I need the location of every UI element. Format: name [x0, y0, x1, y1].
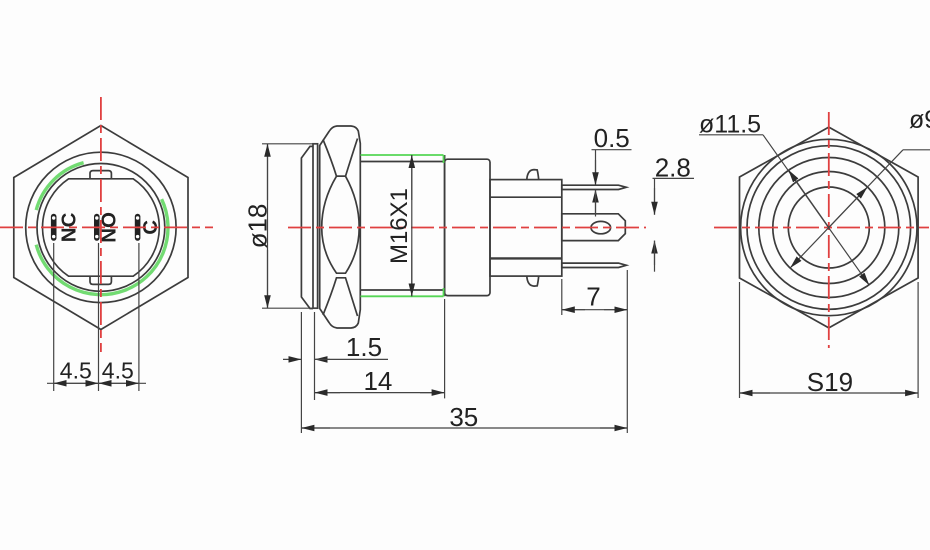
- svg-text:ø9: ø9: [909, 106, 930, 134]
- hex nut outline (front view): [14, 126, 188, 330]
- dimension 0.5: [592, 150, 632, 217]
- housing block: [490, 180, 562, 277]
- centerline horizontal (left view): [0, 226, 213, 228]
- svg-text:0.5: 0.5: [594, 123, 630, 153]
- nut middle facet lens: [322, 176, 360, 273]
- dimension 2.8: [653, 178, 695, 271]
- button circle: [788, 187, 869, 268]
- thread root lines: [361, 161, 444, 163]
- housing top snap tab: [527, 170, 539, 180]
- svg-text:ø11.5: ø11.5: [699, 110, 761, 138]
- terminal slot NO: [94, 214, 100, 241]
- terminal hole: [591, 221, 611, 233]
- button cap face: [301, 146, 313, 308]
- thread circle: [759, 158, 899, 298]
- svg-text:14: 14: [363, 366, 392, 396]
- housing seam top: [490, 196, 562, 198]
- flange inner circle: [747, 146, 911, 310]
- svg-text:2.8: 2.8: [655, 153, 691, 183]
- nut top facet curves: [323, 139, 358, 177]
- centerline vertical (left view): [100, 97, 102, 352]
- rear step ring: [445, 159, 490, 295]
- svg-text:35: 35: [449, 402, 478, 432]
- dimension Ø18: [262, 144, 317, 308]
- nut bottom facet curves: [323, 278, 358, 316]
- illuminated ring (green) arc right-bottom: [36, 199, 168, 295]
- dimension 7: [562, 279, 628, 315]
- flange outer circle: [741, 139, 917, 315]
- dimension S19: [740, 282, 919, 398]
- center terminal block: [562, 214, 626, 241]
- top key tab: [90, 171, 111, 179]
- svg-text:1.5: 1.5: [346, 332, 382, 362]
- bottom key tab: [90, 276, 111, 284]
- terminal slot NC: [51, 214, 57, 241]
- terminal extension lines: [54, 243, 139, 391]
- housing seam bottom: [490, 257, 562, 259]
- centerline (side view): [288, 227, 646, 229]
- svg-text:S19: S19: [807, 367, 853, 397]
- svg-text:4.5: 4.5: [60, 358, 92, 384]
- leader Ø11.5: [699, 135, 869, 285]
- ring circle: [37, 164, 165, 292]
- leader Ø9: [790, 150, 930, 268]
- dimension M16X1: [411, 155, 413, 296]
- bezel circle: [773, 172, 885, 284]
- terminal slot C: [135, 214, 141, 241]
- svg-text:ø18: ø18: [243, 204, 273, 249]
- svg-text:7: 7: [586, 282, 600, 312]
- svg-text:M16X1: M16X1: [386, 188, 413, 264]
- hex nut (side) outline: [320, 126, 361, 328]
- centerline horizontal (right view): [714, 227, 929, 229]
- bezel flange disc: [313, 144, 318, 308]
- top terminal pin: [562, 185, 627, 189]
- housing bottom snap tab: [527, 276, 539, 286]
- centerline vertical (right view): [828, 112, 830, 348]
- dimension 14: [315, 299, 445, 398]
- barrel end face: [444, 155, 446, 296]
- button body D-shape: [43, 179, 160, 276]
- bottom terminal pin: [562, 263, 627, 267]
- thread crest lines (green): [361, 155, 444, 296]
- dimension line 4.5 / 4.5: [47, 382, 146, 384]
- dimension 1.5: [283, 312, 388, 400]
- svg-text:4.5: 4.5: [102, 358, 134, 384]
- dimension 35: [301, 270, 627, 433]
- illuminated ring (green) arc upper-left: [36, 163, 83, 210]
- hex nut outline (front): [740, 127, 919, 328]
- bezel outer circle: [26, 152, 176, 302]
